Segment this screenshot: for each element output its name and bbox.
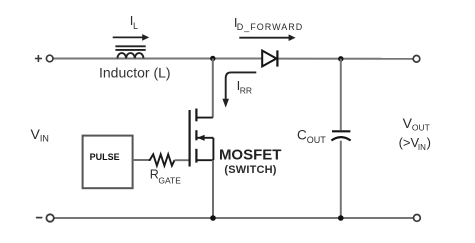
svg-text:D_FORWARD: D_FORWARD — [237, 22, 304, 32]
diode D1 — [262, 50, 277, 66]
svg-text:Inductor (L): Inductor (L) — [99, 64, 171, 80]
pulse source box — [83, 136, 133, 189]
svg-text:MOSFET: MOSFET — [219, 147, 282, 164]
svg-text:GATE: GATE — [158, 175, 181, 185]
plus terminal label — [35, 55, 42, 62]
label VIN — [31, 126, 49, 144]
terminal circle top-left — [46, 55, 53, 62]
body-source vertical — [212, 138, 214, 160]
svg-text:PULSE: PULSE — [90, 152, 120, 162]
label IL current — [130, 13, 138, 31]
wire source vertical — [212, 160, 214, 218]
wire drain vertical — [212, 59, 214, 118]
body diode arrow — [197, 135, 204, 141]
source stub — [196, 159, 213, 161]
svg-text:(>V: (>V — [399, 135, 420, 150]
label IRR — [237, 78, 252, 96]
svg-text:IN: IN — [418, 143, 426, 152]
node A junction dot — [210, 56, 215, 61]
arrow IRR hook — [226, 72, 257, 99]
terminal circle bottom-right — [414, 215, 421, 222]
inductor L coil — [117, 53, 143, 58]
svg-text:(SWITCH): (SWITCH) — [224, 164, 276, 176]
svg-text:RR: RR — [240, 86, 252, 96]
capacitor COUT — [331, 131, 350, 140]
wire capacitor branch upper — [340, 59, 342, 131]
wire top rail right — [278, 58, 414, 60]
arrow ID_FORWARD — [239, 34, 295, 41]
body stub — [198, 137, 214, 139]
wire resistor to gate — [175, 159, 189, 161]
label VOUT — [403, 115, 430, 133]
terminal circle top-right — [413, 56, 420, 63]
svg-text:C: C — [297, 127, 307, 142]
resistor RGATE — [149, 154, 175, 165]
svg-text:OUT: OUT — [412, 123, 430, 133]
label COUT — [297, 127, 326, 145]
node B junction dot — [338, 56, 343, 61]
minus terminal label — [36, 217, 43, 219]
wire bottom rail — [54, 217, 413, 219]
MOSFET Q1 — [190, 109, 214, 167]
node C junction dot bottom — [338, 215, 344, 221]
wire top rail left — [53, 58, 262, 60]
drain stub — [196, 117, 212, 119]
terminal circle bottom-left — [46, 214, 53, 221]
channel segment middle — [195, 130, 197, 140]
svg-text:OUT: OUT — [307, 135, 327, 145]
svg-text:L: L — [133, 21, 138, 31]
svg-text:): ) — [427, 135, 431, 150]
inductor L core bars — [115, 46, 145, 50]
label RGATE — [150, 168, 181, 186]
channel segment upper — [195, 109, 197, 122]
channel segment lower — [195, 149, 197, 163]
node D junction dot — [210, 215, 216, 221]
svg-text:IN: IN — [40, 134, 49, 144]
wire capacitor branch lower — [340, 141, 342, 218]
label ID_FORWARD — [234, 15, 303, 32]
arrow IL — [113, 34, 150, 41]
label VOUT greater than VIN — [399, 135, 431, 152]
wire pulse to resistor — [133, 159, 150, 161]
gate bar — [189, 110, 191, 167]
